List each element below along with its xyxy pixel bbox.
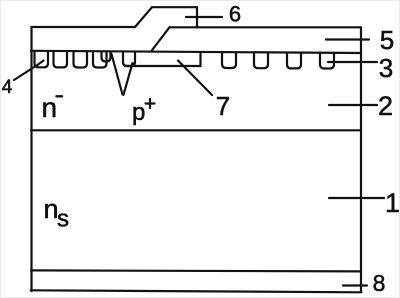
svg-text:3: 3 <box>379 53 393 83</box>
bump b3 <box>74 52 88 68</box>
bump b5 partial <box>102 52 111 62</box>
layer 8 bottom electrode top boundary line <box>31 270 361 271</box>
leader tick 1 <box>329 197 384 199</box>
bump b1 <box>35 51 49 67</box>
label p+ plus sign <box>146 99 155 108</box>
layer 5 top line right segment <box>170 26 362 28</box>
leader tick 8 <box>343 284 367 286</box>
leader line 4 <box>14 61 44 81</box>
leader tick 5 <box>326 38 369 40</box>
svg-text:n: n <box>42 92 58 123</box>
lead 6 lower ramp diagonal <box>151 27 170 51</box>
device body right edge <box>360 27 362 292</box>
svg-text:p: p <box>132 99 145 126</box>
n-/ns layer boundary line <box>31 129 361 131</box>
label n- superscript minus <box>57 95 63 97</box>
svg-text:7: 7 <box>216 91 230 121</box>
svg-text:s: s <box>57 206 69 233</box>
region 7 flat bottom and right side <box>125 52 201 66</box>
bump b8 <box>254 53 268 69</box>
device body left edge <box>30 27 32 291</box>
svg-text:1: 1 <box>385 188 400 218</box>
svg-text:6: 6 <box>229 1 241 26</box>
leader tick 3 <box>328 61 377 63</box>
leader tick 2 <box>329 104 377 106</box>
bump b6 partial <box>123 52 135 66</box>
svg-text:4: 4 <box>2 77 13 98</box>
leader tick 6 <box>186 16 222 18</box>
svg-text:2: 2 <box>378 91 393 121</box>
p+ deep region V left stroke <box>112 54 123 95</box>
leader line 7 <box>178 61 212 96</box>
lead 6 right end vertical <box>196 7 198 27</box>
layer 5 top line left segment <box>32 26 136 28</box>
p+ deep region V right stroke <box>124 63 133 95</box>
device body bottom edge <box>31 290 362 292</box>
bump b2 <box>54 51 68 67</box>
lead 6 top line <box>152 6 197 8</box>
lead 6 upper ramp diagonal <box>135 7 152 27</box>
bump b9 <box>287 53 301 69</box>
bump b4 <box>93 52 107 68</box>
bump b10 <box>320 53 334 69</box>
bump b7 <box>222 52 236 68</box>
svg-text:8: 8 <box>373 270 386 296</box>
layer 5 bottom line (bump interface line) <box>31 51 361 53</box>
svg-text:5: 5 <box>380 25 394 55</box>
